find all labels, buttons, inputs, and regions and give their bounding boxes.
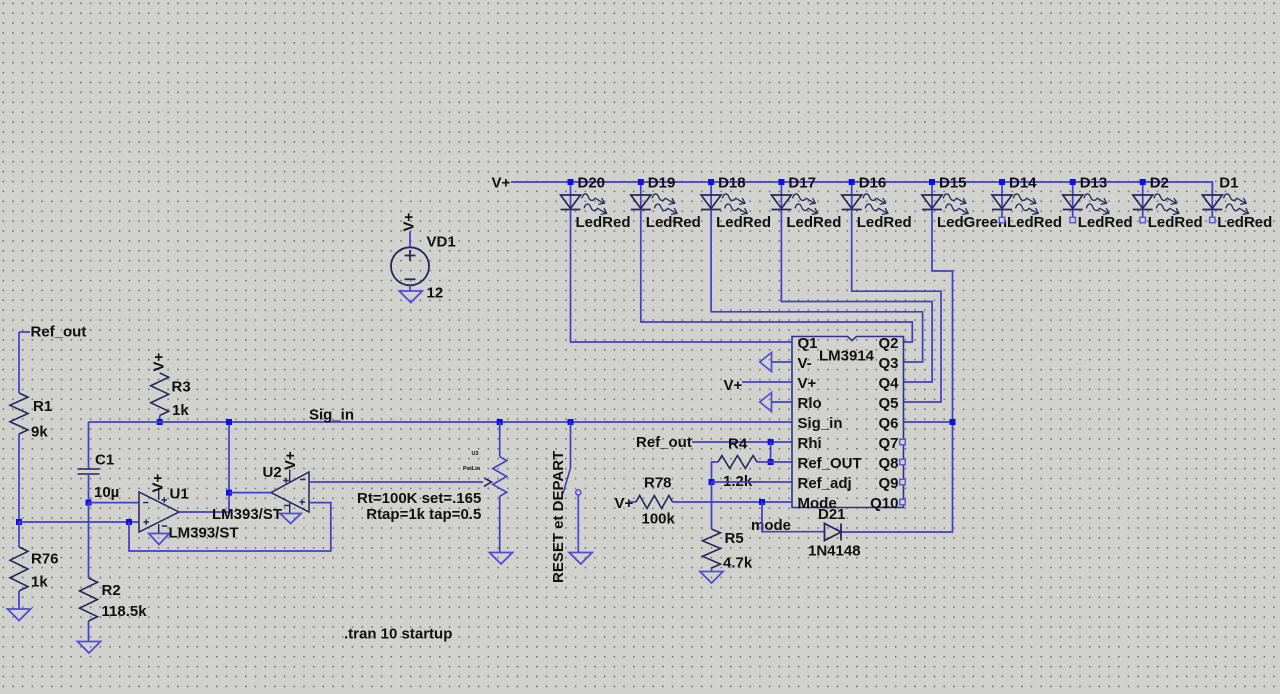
- svg-text:Q1: Q1: [798, 335, 818, 352]
- svg-text:D19: D19: [648, 175, 676, 192]
- potentiometer U3 body: [493, 457, 507, 497]
- wire Ref_adj stub: [712, 481, 793, 483]
- svg-text:Q7: Q7: [878, 435, 898, 452]
- svg-text:118.5k: 118.5k: [102, 603, 148, 620]
- node R1/R76 junction: [16, 519, 22, 525]
- node R3 on Sig_in rail: [157, 419, 163, 425]
- wire VD1 top lead: [409, 232, 411, 248]
- LED D2: [1142, 182, 1144, 210]
- wire U1 minus input: [89, 502, 140, 504]
- node Ref_OUT junction: [768, 459, 774, 465]
- capacitor C1: [78, 469, 100, 474]
- wire R3 bottom lead: [159, 416, 161, 423]
- VD1 plus sign: [405, 250, 416, 261]
- switch contact circle: [576, 490, 581, 495]
- svg-text:LedRed: LedRed: [857, 214, 912, 231]
- wire Ref_out to Rhi: [692, 441, 792, 443]
- svg-text:U1: U1: [170, 486, 189, 503]
- svg-text:Q10: Q10: [870, 495, 898, 512]
- LED D14: [1001, 182, 1003, 210]
- svg-text:LM393/ST: LM393/ST: [212, 506, 282, 523]
- wire V+ to IC: [742, 381, 792, 383]
- LED D15: [931, 182, 933, 210]
- svg-text:V+: V+: [151, 352, 168, 371]
- wire comparator output column: [228, 422, 230, 512]
- svg-text:V+: V+: [401, 212, 418, 231]
- svg-text:D16: D16: [859, 175, 887, 192]
- svg-text:Ref_OUT: Ref_OUT: [798, 455, 862, 472]
- svg-text:LedRed: LedRed: [646, 214, 701, 231]
- U2 supply marks: [283, 478, 289, 506]
- node on V+ rail at D16: [849, 179, 855, 185]
- svg-text:RESET et DEPART: RESET et DEPART: [550, 451, 567, 583]
- voltage source VD1 circle: [391, 247, 429, 285]
- svg-text:U2: U2: [263, 464, 282, 481]
- wire R76 top lead: [18, 522, 20, 547]
- svg-text:.tran 10 startup: .tran 10 startup: [344, 626, 452, 643]
- open pin square Q10: [900, 499, 906, 505]
- wire Ref_OUT stub: [757, 461, 792, 463]
- node on V+ rail at D2: [1140, 179, 1146, 185]
- svg-text:Rt=100K set=.165: Rt=100K set=.165: [357, 490, 481, 507]
- wire Ref_out stub: [19, 331, 30, 333]
- svg-text:Q4: Q4: [878, 375, 899, 392]
- node C1/R2/U1- junction: [86, 500, 92, 506]
- op-amp U2 triangle: [271, 472, 309, 512]
- wire U1 supply leads: [158, 488, 160, 534]
- ground below U2: [280, 514, 301, 524]
- svg-text:Q8: Q8: [878, 455, 898, 472]
- resistor R3: [151, 373, 169, 416]
- svg-text:PotLin: PotLin: [463, 466, 481, 472]
- svg-text:LedRed: LedRed: [1148, 214, 1203, 231]
- op-amp U1 triangle: [139, 492, 179, 532]
- wire R1 bottom lead: [18, 434, 20, 522]
- svg-text:V+: V+: [615, 495, 634, 512]
- node switch on Sig_in rail: [568, 419, 574, 425]
- wire R5 top lead: [711, 482, 713, 529]
- svg-text:Q6: Q6: [878, 415, 898, 432]
- svg-text:LedRed: LedRed: [1217, 214, 1272, 231]
- open pin square Q8: [900, 459, 906, 465]
- LED D20: [570, 182, 572, 210]
- wire potentiometer bottom lead: [499, 496, 501, 552]
- svg-text:LedRed: LedRed: [1007, 214, 1062, 231]
- svg-text:VD1: VD1: [427, 234, 456, 251]
- diode D21 cathode bar: [840, 524, 842, 541]
- svg-text:Ref_adj: Ref_adj: [798, 475, 852, 492]
- svg-text:V+: V+: [492, 175, 511, 192]
- wire feedback U2- to U1+: [129, 503, 331, 551]
- svg-text:V+: V+: [724, 377, 743, 394]
- svg-text:C1: C1: [95, 452, 114, 469]
- svg-text:R5: R5: [725, 530, 744, 547]
- node on V+ rail at D18: [708, 179, 714, 185]
- svg-text:LM393/ST: LM393/ST: [169, 525, 239, 542]
- svg-text:D18: D18: [718, 175, 746, 192]
- wire U2 supply leads: [289, 470, 291, 514]
- wire R4 left lead: [712, 462, 719, 482]
- svg-text:V-: V-: [798, 355, 812, 372]
- wire U2 output: [229, 492, 271, 494]
- svg-text:LM3914: LM3914: [819, 348, 875, 365]
- svg-text:Rlo: Rlo: [798, 395, 822, 412]
- wire D20 cathode to Q1: [571, 210, 793, 343]
- wire R78 to Mode pin: [673, 501, 792, 503]
- resistor R2: [80, 578, 98, 621]
- ground flag at Rlo pin: [760, 393, 772, 412]
- wire R2 top lead: [88, 503, 90, 578]
- wire D16 cathode to Q5: [852, 210, 941, 403]
- wire V+ rail: [511, 182, 1212, 195]
- svg-text:D14: D14: [1009, 175, 1037, 192]
- node Q6 junction: [950, 419, 956, 425]
- svg-text:R1: R1: [33, 398, 52, 415]
- LED D19: [640, 182, 642, 210]
- ground below U1: [149, 534, 170, 545]
- svg-text:LedRed: LedRed: [576, 214, 631, 231]
- node on V+ rail at D14: [999, 179, 1005, 185]
- svg-text:V+: V+: [150, 473, 167, 492]
- U1 input marks: [143, 503, 149, 525]
- svg-text:R78: R78: [644, 475, 672, 492]
- svg-text:Q9: Q9: [878, 475, 898, 492]
- LED D13: [1072, 182, 1074, 210]
- U1 supply marks: [162, 497, 168, 526]
- node potentiometer on Sig_in rail: [497, 419, 503, 425]
- wire potentiometer top lead: [499, 422, 501, 457]
- ground below potentiometer: [490, 553, 513, 565]
- svg-text:V+: V+: [798, 375, 817, 392]
- wire R78 left lead: [630, 501, 636, 503]
- svg-text:100k: 100k: [642, 511, 676, 528]
- LED D18: [710, 182, 712, 210]
- ground below R2: [78, 642, 101, 654]
- LED D17: [780, 182, 782, 210]
- node on V+ rail at D15: [929, 179, 935, 185]
- ground flag at V- pin: [760, 353, 772, 372]
- node on V+ rail at D19: [638, 179, 644, 185]
- svg-text:D13: D13: [1080, 175, 1108, 192]
- wire U1 plus input: [19, 521, 139, 523]
- svg-text:Mode: Mode: [798, 495, 837, 512]
- wire D15 cathode to Q6 and D21: [842, 210, 953, 533]
- svg-text:1N4148: 1N4148: [808, 543, 861, 560]
- wire C1 bottom lead: [88, 474, 90, 503]
- wire Sig_in rail: [89, 421, 793, 423]
- ground below R5: [700, 572, 723, 584]
- resistor R4: [718, 456, 757, 469]
- wire Q6 stub: [904, 421, 953, 423]
- wire Rlo stub: [772, 401, 793, 403]
- wire C1 top lead: [88, 422, 90, 469]
- node on V+ rail at D13: [1070, 179, 1076, 185]
- ground below switch: [569, 553, 592, 565]
- node Mode junction: [759, 499, 765, 505]
- LED D16: [851, 182, 853, 210]
- diode D21: [825, 524, 842, 541]
- node U2 output junction: [226, 490, 232, 496]
- potentiometer wiper arrow: [484, 478, 492, 487]
- open pin square Q7: [900, 439, 906, 445]
- svg-text:Ref_out: Ref_out: [31, 324, 87, 341]
- svg-text:U3: U3: [472, 451, 479, 457]
- svg-text:1k: 1k: [31, 574, 48, 591]
- IC U? LM3914 box: [792, 337, 904, 508]
- svg-text:LedRed: LedRed: [716, 214, 771, 231]
- wire V- stub: [772, 361, 793, 363]
- open pin square Q9: [900, 479, 906, 485]
- switch lever: [563, 468, 571, 494]
- wire Rhi to Ref_OUT: [770, 442, 772, 462]
- svg-text:D2: D2: [1150, 175, 1169, 192]
- wire R2 bottom lead: [88, 621, 90, 642]
- svg-text:R3: R3: [172, 379, 191, 396]
- wire Mode to D21 anode: [762, 502, 825, 532]
- ground below VD1: [399, 291, 422, 303]
- svg-text:R76: R76: [31, 551, 59, 568]
- svg-text:1k: 1k: [172, 402, 189, 419]
- U2 input marks: [300, 480, 306, 505]
- node U1 plus feedback junction: [126, 519, 132, 525]
- svg-text:V+: V+: [282, 451, 299, 470]
- node comparator column on Sig_in: [226, 419, 232, 425]
- wire U1 output: [179, 511, 229, 513]
- svg-text:Rtap=1k tap=0.5: Rtap=1k tap=0.5: [366, 506, 481, 523]
- VD1 minus sign: [405, 278, 416, 280]
- wire VD1 bottom lead: [409, 285, 411, 291]
- resistor R5: [703, 529, 721, 568]
- wire R76 bottom lead: [18, 591, 20, 609]
- svg-text:LedRed: LedRed: [1078, 214, 1133, 231]
- svg-text:Q2: Q2: [878, 335, 898, 352]
- resistor R78: [636, 496, 673, 509]
- svg-text:4.7k: 4.7k: [723, 555, 753, 572]
- svg-text:Ref_out: Ref_out: [636, 434, 692, 451]
- wire D18 cathode to Q3: [711, 210, 923, 363]
- node on V+ rail at D20: [568, 179, 574, 185]
- wire D17 cathode to Q4: [781, 210, 932, 383]
- wire switch top lead: [570, 422, 572, 468]
- svg-text:Sig_in: Sig_in: [309, 407, 354, 424]
- wire R1 top lead: [18, 332, 20, 393]
- resistor R76: [10, 547, 28, 591]
- svg-text:LedRed: LedRed: [786, 214, 841, 231]
- svg-text:Sig_in: Sig_in: [798, 415, 843, 432]
- wire D19 cathode to Q2: [641, 210, 913, 343]
- node on V+ rail at D17: [778, 179, 784, 185]
- svg-text:Rhi: Rhi: [798, 435, 822, 452]
- node Ref_adj junction: [709, 479, 715, 485]
- svg-text:D17: D17: [788, 175, 816, 192]
- svg-text:9k: 9k: [31, 424, 48, 441]
- svg-text:R4: R4: [728, 436, 748, 453]
- wire R5 bottom lead: [711, 568, 713, 572]
- svg-text:12: 12: [427, 285, 444, 302]
- wire switch contact to ground: [577, 495, 579, 552]
- resistor R1: [10, 393, 28, 434]
- svg-text:D15: D15: [939, 175, 967, 192]
- svg-text:D20: D20: [578, 175, 606, 192]
- node Rhi junction: [768, 439, 774, 445]
- wire U2 plus input to potentiometer wiper: [309, 481, 483, 483]
- LED D1: [1211, 182, 1213, 210]
- svg-text:R2: R2: [102, 582, 121, 599]
- svg-text:10µ: 10µ: [94, 484, 119, 501]
- svg-text:Q5: Q5: [878, 395, 898, 412]
- svg-text:LedGreen: LedGreen: [937, 214, 1007, 231]
- svg-text:Q3: Q3: [878, 355, 898, 372]
- ground below R76: [8, 609, 31, 621]
- svg-text:D1: D1: [1219, 175, 1238, 192]
